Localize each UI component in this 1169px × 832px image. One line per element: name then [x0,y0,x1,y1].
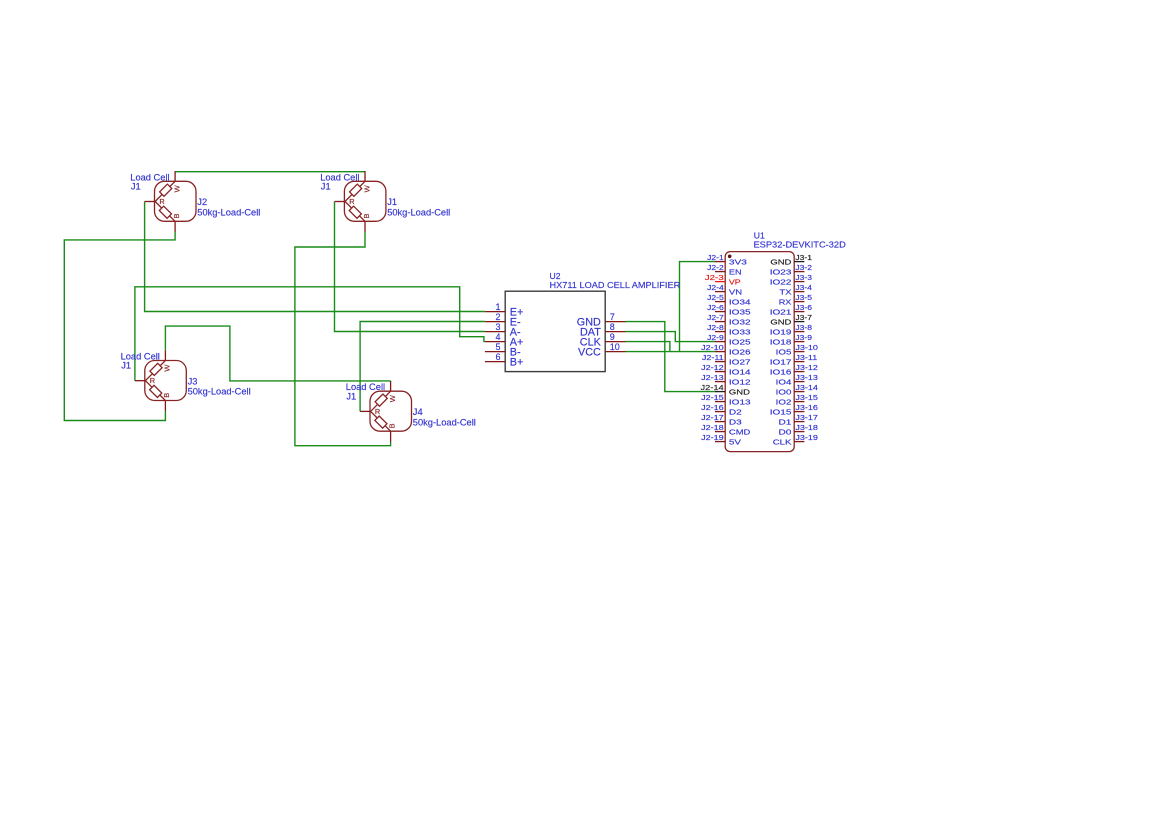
svg-text:B: B [387,423,396,428]
svg-text:IO26: IO26 [729,348,751,356]
svg-text:J2-9: J2-9 [707,334,724,342]
svg-text:ESP32-DEVKITC-32D: ESP32-DEVKITC-32D [754,240,847,250]
svg-text:IO34: IO34 [729,298,751,306]
svg-text:IO18: IO18 [770,338,792,346]
svg-text:IO27: IO27 [729,358,751,366]
svg-text:W: W [362,184,371,192]
svg-text:J3-8: J3-8 [795,324,812,332]
svg-text:10: 10 [610,342,620,352]
svg-text:J3-9: J3-9 [795,334,812,342]
svg-text:50kg-Load-Cell: 50kg-Load-Cell [387,207,450,217]
svg-text:EN: EN [729,268,742,276]
svg-text:R: R [349,197,354,206]
svg-text:J2-11: J2-11 [702,354,724,362]
svg-text:IO14: IO14 [729,368,751,376]
svg-text:J1: J1 [346,391,356,401]
svg-text:J2-15: J2-15 [701,394,724,402]
svg-text:J1: J1 [121,361,131,371]
svg-text:9: 9 [610,332,615,342]
svg-text:IO35: IO35 [729,308,751,316]
svg-text:VP: VP [729,278,741,286]
svg-text:6: 6 [495,352,500,362]
svg-text:J2-6: J2-6 [707,304,724,312]
svg-text:3V3: 3V3 [729,258,747,266]
svg-text:J3: J3 [188,376,198,386]
svg-text:50kg-Load-Cell: 50kg-Load-Cell [413,417,476,427]
svg-text:J3-19: J3-19 [795,434,818,442]
svg-text:J3-18: J3-18 [795,424,818,432]
svg-text:IO22: IO22 [770,278,792,286]
svg-text:B: B [172,214,181,219]
svg-text:W: W [172,184,181,192]
svg-text:D0: D0 [779,428,792,436]
svg-text:J3-11: J3-11 [795,354,817,362]
svg-text:J2-8: J2-8 [707,324,724,332]
svg-text:TX: TX [780,288,792,297]
svg-text:J1: J1 [387,197,397,207]
svg-text:IO25: IO25 [729,338,751,346]
svg-text:5: 5 [495,342,500,352]
svg-text:CLK: CLK [773,438,792,446]
svg-text:J3-17: J3-17 [795,414,818,422]
svg-text:IO13: IO13 [729,398,751,406]
svg-text:J2-2: J2-2 [707,264,724,272]
svg-text:J3-15: J3-15 [795,394,818,402]
svg-text:50kg-Load-Cell: 50kg-Load-Cell [188,387,251,397]
svg-text:J3-3: J3-3 [795,274,812,282]
svg-text:IO2: IO2 [776,398,792,406]
svg-text:J2-5: J2-5 [707,294,724,302]
svg-text:J2-13: J2-13 [701,374,724,382]
svg-text:J2-17: J2-17 [701,414,724,422]
svg-text:J4: J4 [413,407,423,417]
svg-text:D2: D2 [729,408,742,416]
svg-text:W: W [388,394,397,402]
svg-text:D3: D3 [729,418,742,426]
svg-text:J3-10: J3-10 [795,344,818,352]
svg-text:B: B [162,393,171,398]
svg-text:IO17: IO17 [770,358,792,366]
svg-text:GND: GND [770,258,791,267]
svg-text:IO15: IO15 [770,408,792,416]
svg-text:J3-4: J3-4 [795,284,812,292]
svg-text:J3-7: J3-7 [795,314,812,322]
svg-text:IO23: IO23 [770,268,792,276]
svg-text:2: 2 [495,312,500,322]
svg-text:IO32: IO32 [729,318,751,326]
svg-text:D1: D1 [779,418,792,426]
svg-text:J2-1: J2-1 [707,254,724,262]
svg-text:J2-3: J2-3 [705,273,724,282]
svg-text:IO16: IO16 [770,368,792,376]
svg-text:J3-16: J3-16 [795,404,818,412]
svg-text:HX711 LOAD CELL AMPLIFIER: HX711 LOAD CELL AMPLIFIER [550,280,681,290]
svg-text:J1: J1 [131,181,141,191]
svg-text:VCC: VCC [578,347,601,359]
svg-text:RX: RX [779,298,792,306]
svg-text:B: B [362,214,371,219]
svg-text:J3-6: J3-6 [795,304,812,312]
svg-text:IO5: IO5 [776,348,792,356]
svg-text:GND: GND [770,318,791,327]
svg-text:J2-16: J2-16 [701,404,724,412]
svg-text:J2-18: J2-18 [701,424,724,432]
svg-text:J3-12: J3-12 [795,364,818,372]
svg-text:J3-2: J3-2 [795,264,812,272]
svg-text:IO21: IO21 [770,308,792,316]
svg-text:J2-10: J2-10 [701,344,724,352]
svg-text:J2: J2 [197,197,207,207]
svg-text:J3-14: J3-14 [795,384,818,392]
svg-text:1: 1 [495,302,500,312]
svg-text:J2-7: J2-7 [707,314,724,322]
svg-text:R: R [159,197,164,206]
svg-text:CMD: CMD [729,428,750,437]
svg-text:R: R [150,376,155,385]
svg-text:IO0: IO0 [776,388,792,396]
svg-text:GND: GND [729,388,750,397]
svg-text:50kg-Load-Cell: 50kg-Load-Cell [197,207,260,217]
svg-text:3: 3 [495,322,500,332]
svg-text:J3-13: J3-13 [795,374,818,382]
svg-text:W: W [163,364,172,372]
svg-text:J3-5: J3-5 [795,294,812,302]
svg-text:J2-4: J2-4 [707,284,724,292]
svg-text:IO33: IO33 [729,328,751,336]
svg-text:7: 7 [610,312,615,322]
svg-text:5V: 5V [729,438,741,446]
svg-text:J3-1: J3-1 [795,254,812,262]
svg-text:4: 4 [495,332,500,342]
svg-text:J2-14: J2-14 [701,383,725,392]
svg-text:VN: VN [729,288,742,297]
svg-text:B+: B+ [510,357,524,369]
svg-text:J1: J1 [321,181,331,191]
svg-text:R: R [375,407,380,416]
svg-text:IO12: IO12 [729,378,751,386]
svg-text:J2-12: J2-12 [701,364,724,372]
svg-text:IO4: IO4 [776,378,792,386]
svg-text:8: 8 [610,322,615,332]
svg-text:IO19: IO19 [770,328,792,336]
svg-text:J2-19: J2-19 [701,434,724,442]
